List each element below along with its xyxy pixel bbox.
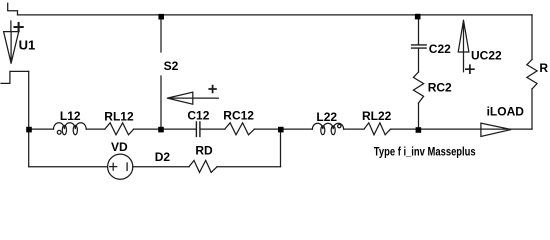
svg-text:L12: L12 bbox=[60, 109, 81, 123]
inductor L12 loop 2 bbox=[73, 125, 77, 134]
svg-text:D2: D2 bbox=[155, 150, 171, 164]
current arrow at S2 node bbox=[167, 92, 218, 104]
junction node top S2 bbox=[158, 14, 164, 20]
wire right vertical upper bbox=[531, 15, 533, 60]
junction node S2 bottom bbox=[158, 127, 164, 133]
junction node RC2 bottom bbox=[416, 127, 422, 133]
inductor L12 loop 1 bbox=[62, 125, 66, 134]
voltage source U1 arrow bbox=[4, 32, 19, 64]
voltage source VD circle bbox=[108, 154, 133, 179]
svg-text:C12: C12 bbox=[187, 109, 209, 123]
wire left vertical bbox=[28, 71, 30, 129]
junction node left bbox=[26, 127, 32, 133]
plus sign at UC22 bbox=[466, 65, 474, 73]
wire RD to riser bbox=[217, 166, 281, 168]
wire right vertical lower bbox=[531, 89, 533, 129]
svg-text:RC12: RC12 bbox=[223, 109, 254, 123]
resistor RL22 bbox=[364, 123, 391, 135]
junction node mid bbox=[278, 127, 284, 133]
capacitor C22 plates bbox=[412, 45, 427, 48]
svg-text:UC22: UC22 bbox=[471, 48, 502, 62]
voltage arrow UC22 bbox=[458, 20, 469, 72]
svg-text:U1: U1 bbox=[19, 38, 36, 53]
svg-text:RD: RD bbox=[195, 144, 213, 158]
wire VD to RD (diode D2 net) bbox=[133, 166, 189, 168]
wire U1 bottom hook bbox=[1, 71, 29, 83]
voltage source VD lower wire left bbox=[29, 166, 108, 168]
wire top-left hook bbox=[8, 3, 18, 15]
plus sign at S2 arrow bbox=[209, 86, 216, 93]
svg-text:iLOAD: iLOAD bbox=[487, 105, 525, 119]
wire C22 to RC2 bbox=[418, 49, 420, 72]
inductor L22 coil bbox=[312, 123, 343, 129]
svg-text:VD: VD bbox=[111, 140, 128, 154]
capacitor C22 branch upper wire bbox=[418, 15, 420, 44]
inductor L12 polarity dot bbox=[57, 130, 61, 134]
junction node top C22 bbox=[415, 14, 421, 20]
inductor L22 loop 2 bbox=[331, 126, 335, 135]
resistor R bbox=[527, 60, 537, 90]
switch S2 lower wire bbox=[160, 76, 162, 129]
resistor RD bbox=[189, 160, 217, 172]
resistor RC12 bbox=[225, 123, 255, 135]
voltage source VD minus bar bbox=[126, 163, 128, 170]
wire RC2 to node bbox=[418, 103, 420, 129]
svg-text:RL12: RL12 bbox=[104, 109, 134, 123]
wire riser to node bbox=[280, 129, 282, 167]
current arrow iLOAD bbox=[481, 123, 511, 136]
plus sign at U1 bbox=[15, 23, 23, 31]
svg-text:RL22: RL22 bbox=[362, 109, 392, 123]
inductor L22 loop 1 bbox=[321, 126, 325, 135]
svg-text:RC2: RC2 bbox=[428, 81, 452, 95]
inductor L12 coil bbox=[54, 123, 87, 129]
wire middle row bbox=[29, 128, 532, 130]
wire left vertical to VD branch bbox=[28, 129, 30, 167]
voltage source VD plus bbox=[110, 163, 117, 170]
svg-text:Type f i_inv Masseplus: Type f i_inv Masseplus bbox=[374, 146, 476, 159]
svg-text:R: R bbox=[539, 61, 548, 75]
voltage source U1 stem bbox=[10, 21, 12, 32]
resistor RL12 bbox=[105, 123, 134, 135]
capacitor C12 plates bbox=[196, 122, 200, 136]
inductor L22 polarity dot bbox=[338, 124, 341, 127]
svg-text:L22: L22 bbox=[316, 110, 337, 124]
svg-text:S2: S2 bbox=[164, 59, 179, 73]
resistor RC2 bbox=[413, 72, 423, 103]
svg-text:C22: C22 bbox=[429, 42, 451, 56]
wire top bus bbox=[18, 14, 533, 16]
switch S2 upper wire bbox=[160, 15, 162, 52]
